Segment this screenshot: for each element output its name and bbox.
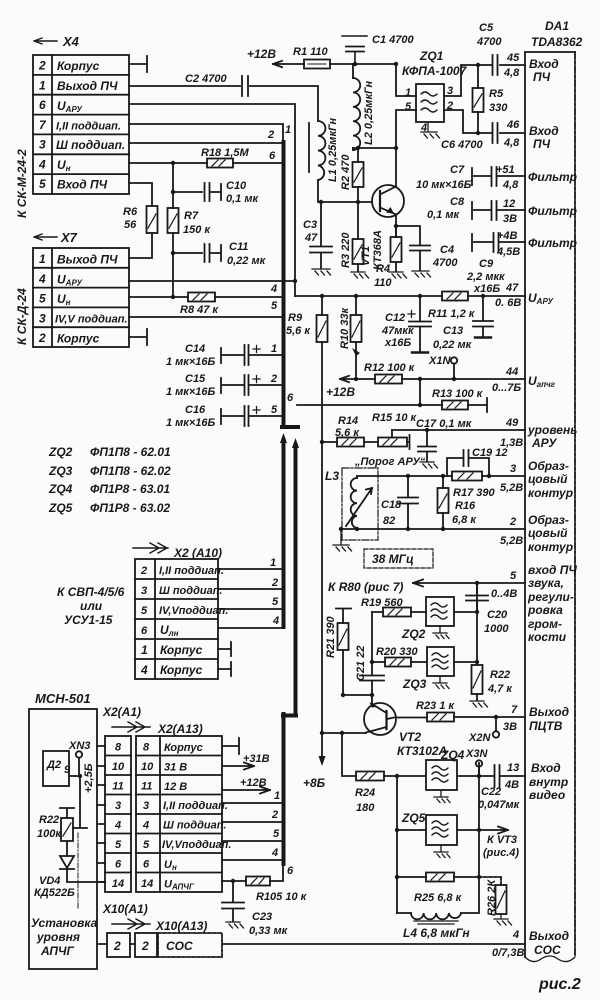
capacitor C6 4700 xyxy=(441,123,498,151)
svg-text:UАРУ: UАРУ xyxy=(528,291,553,306)
svg-text:С10: С10 xyxy=(226,180,247,192)
svg-text:ZQ4: ZQ4 xyxy=(48,482,73,496)
svg-text:IV,Vподдиап.: IV,Vподдиап. xyxy=(159,605,228,617)
svg-text:вход ПЧ: вход ПЧ xyxy=(528,563,577,577)
capacitor C18 82 xyxy=(381,476,418,529)
svg-text:3: 3 xyxy=(141,585,147,597)
supply +8V arrow xyxy=(303,733,326,790)
ground R4 xyxy=(389,272,407,278)
svg-text:1: 1 xyxy=(39,252,46,266)
svg-text:„Порог АРУ“: „Порог АРУ“ xyxy=(354,456,426,468)
svg-text:3: 3 xyxy=(39,138,46,152)
wire ZQ1 pin3 to C5 xyxy=(444,65,525,96)
wire 4 Uн with R8 xyxy=(129,283,283,297)
svg-text:2: 2 xyxy=(38,331,46,345)
svg-text:С15: С15 xyxy=(185,373,206,385)
svg-text:Uлн: Uлн xyxy=(160,623,179,638)
svg-text:5: 5 xyxy=(39,177,46,191)
ground X7 Корпус xyxy=(129,329,147,345)
connector X10 cells xyxy=(107,933,222,957)
svg-text:контур: контур xyxy=(528,540,573,554)
svg-text:Uн: Uн xyxy=(57,158,71,173)
capacitor C19 12 xyxy=(447,447,507,476)
svg-text:VT2: VT2 xyxy=(399,730,421,744)
svg-text:2: 2 xyxy=(140,565,147,577)
svg-text:Образ-: Образ- xyxy=(528,513,569,527)
svg-text:R14: R14 xyxy=(338,415,358,427)
svg-text:R25 6,8 к: R25 6,8 к xyxy=(414,892,463,904)
filter ZQ5 xyxy=(397,811,479,858)
filter list note ZQ2-ZQ5 xyxy=(48,445,171,515)
svg-text:Uапчг: Uапчг xyxy=(528,374,556,389)
resistor R1 110 xyxy=(293,46,330,69)
svg-text:5: 5 xyxy=(272,596,279,608)
svg-text:Вход ПЧ: Вход ПЧ xyxy=(57,178,108,192)
svg-text:Фильтр: Фильтр xyxy=(528,236,577,250)
svg-text:4,7 к: 4,7 к xyxy=(487,683,513,695)
svg-text:2: 2 xyxy=(509,516,516,528)
diode VD4 КД522Б xyxy=(34,856,105,899)
resistor R17 390 xyxy=(452,472,495,500)
svg-text:R4: R4 xyxy=(376,263,390,275)
svg-text:С11: С11 xyxy=(229,241,248,253)
svg-text:С6 4700: С6 4700 xyxy=(441,139,483,151)
svg-text:СОС: СОС xyxy=(166,939,193,953)
svg-text:R105 10 к: R105 10 к xyxy=(256,891,308,903)
svg-text:2: 2 xyxy=(141,939,149,953)
svg-text:+12В: +12В xyxy=(240,777,267,789)
svg-text:330: 330 xyxy=(489,102,508,114)
resistor R16 6,8к xyxy=(438,476,478,529)
svg-text:0/7,3В: 0/7,3В xyxy=(492,947,524,959)
ground X2(A10) pin4 xyxy=(218,662,231,676)
op-amp/IC DA1 TDA8362 box xyxy=(525,19,583,962)
test point X3N xyxy=(465,748,488,776)
wire X2(A13) row III xyxy=(222,809,281,822)
wire 2 III поддиап xyxy=(129,142,283,144)
svg-text:С9: С9 xyxy=(479,258,494,270)
svg-text:ХN3: ХN3 xyxy=(68,740,90,752)
capacitor C2 4700 xyxy=(185,73,248,96)
svg-text:С14: С14 xyxy=(185,343,205,355)
svg-text:6: 6 xyxy=(287,865,294,877)
svg-text:47мкк: 47мкк xyxy=(381,325,415,337)
IC pin 45 Вход ПЧ xyxy=(503,52,559,84)
svg-text:6: 6 xyxy=(39,98,46,112)
svg-text:4: 4 xyxy=(512,929,519,941)
svg-text:+12В: +12В xyxy=(326,385,355,399)
transistor VT2 КТ3102А xyxy=(364,702,447,758)
svg-text:14: 14 xyxy=(112,878,124,890)
wire X2(A13) row IV,V xyxy=(222,828,281,841)
IC pin 3 образцовый контур xyxy=(500,459,573,500)
svg-text:Ш поддиап.: Ш поддиап. xyxy=(56,138,125,152)
svg-text:I,II поддиап.: I,II поддиап. xyxy=(56,121,121,133)
svg-text:Вход: Вход xyxy=(529,124,559,138)
connector X7 table xyxy=(33,248,129,347)
svg-text:МСН-501: МСН-501 xyxy=(35,691,91,706)
svg-text:150 к: 150 к xyxy=(183,224,211,236)
wire +12V rail with arrow xyxy=(247,47,396,67)
resistor R8 47к xyxy=(180,293,219,317)
wire ZQ1 pin1 xyxy=(396,64,416,96)
filter ZQ4 xyxy=(426,748,525,803)
svg-text:кости: кости xyxy=(528,630,567,644)
svg-text:ровка: ровка xyxy=(527,603,563,617)
svg-text:5: 5 xyxy=(115,839,122,851)
capacitor C3 47 xyxy=(303,202,332,275)
svg-text:3В: 3В xyxy=(503,213,517,225)
svg-text:ZQ1: ZQ1 xyxy=(419,49,444,63)
svg-text:6: 6 xyxy=(269,150,276,162)
svg-text:уровень: уровень xyxy=(527,423,577,437)
svg-text:VD4: VD4 xyxy=(39,875,60,887)
svg-text:7: 7 xyxy=(39,118,47,132)
svg-text:31 В: 31 В xyxy=(164,762,187,774)
svg-text:6,8 к: 6,8 к xyxy=(452,514,477,526)
wire emitter rail +8V xyxy=(322,732,366,734)
svg-text:+4В: +4В xyxy=(497,230,518,242)
connector X2(A13) table xyxy=(136,736,231,892)
svg-text:5,6 к: 5,6 к xyxy=(286,325,311,337)
svg-text:180: 180 xyxy=(356,802,375,814)
svg-text:С22: С22 xyxy=(481,786,501,798)
IC pin 49 уровень АРУ xyxy=(500,417,577,450)
svg-text:38 МГц: 38 МГц xyxy=(372,552,414,566)
wire pin 5 звук with arrow K R80 xyxy=(328,580,525,595)
svg-text:К СВП-4/5/6: К СВП-4/5/6 xyxy=(57,585,125,599)
capacitor C4 4700 xyxy=(396,226,458,277)
svg-text:12: 12 xyxy=(503,198,515,210)
svg-text:L2 0,25мкГн: L2 0,25мкГн xyxy=(363,81,375,145)
resistor R3 220 xyxy=(340,202,364,271)
svg-text:+8Б: +8Б xyxy=(303,776,326,790)
svg-text:Выход ПЧ: Выход ПЧ xyxy=(57,79,118,93)
svg-text:0. 6В: 0. 6В xyxy=(495,297,521,309)
svg-text:Х2(А1): Х2(А1) xyxy=(102,705,141,719)
capacitor C7 10мк x16В xyxy=(416,164,525,191)
ground L3 xyxy=(333,529,352,551)
svg-text:IV,Vподдиап.: IV,Vподдиап. xyxy=(162,839,231,851)
filter ZQ3 xyxy=(402,647,477,691)
svg-text:R5: R5 xyxy=(489,88,504,100)
svg-text:ФП1П8 - 62.02: ФП1П8 - 62.02 xyxy=(90,464,171,478)
IC pin 2 образцовый контур xyxy=(500,513,573,554)
svg-text:0..4В: 0..4В xyxy=(491,588,517,600)
svg-text:ПЦТВ: ПЦТВ xyxy=(529,719,563,733)
wire X2(A10) row III xyxy=(218,577,281,589)
svg-text:рис.2: рис.2 xyxy=(538,976,581,993)
svg-text:49: 49 xyxy=(505,417,519,429)
svg-text:С1 4700: С1 4700 xyxy=(372,34,414,46)
svg-text:4,5В: 4,5В xyxy=(496,246,520,258)
svg-text:звука,: звука, xyxy=(528,576,564,590)
wire video rail xyxy=(478,763,480,877)
svg-text:Образ-: Образ- xyxy=(528,459,569,473)
svg-text:0,22 мк: 0,22 мк xyxy=(433,339,473,351)
svg-text:Ш поддиап.: Ш поддиап. xyxy=(159,585,222,597)
svg-text:ZQ5: ZQ5 xyxy=(48,501,73,515)
svg-text:1 мк×16Б: 1 мк×16Б xyxy=(166,386,216,398)
resistor R5 330 xyxy=(473,65,509,133)
svg-text:11: 11 xyxy=(141,781,152,793)
IC pin 5 вход ПЧ звука xyxy=(491,563,577,644)
svg-text:или: или xyxy=(80,599,103,613)
bus thick vertical (bottom) xyxy=(282,714,286,864)
svg-text:5,2В: 5,2В xyxy=(500,482,523,494)
connector X2(A10) table xyxy=(135,559,228,679)
svg-text:АПЧГ: АПЧГ xyxy=(40,944,74,958)
svg-text:контур: контур xyxy=(528,486,573,500)
wire 6 Uн with R18 xyxy=(129,150,283,163)
svg-text:4: 4 xyxy=(420,122,427,134)
wire X2(A10) row I,II xyxy=(218,557,281,569)
capacitor C9 2,2мкк x16В xyxy=(466,233,525,295)
capacitor C20 1000 xyxy=(466,583,509,635)
capacitor C22 0,047мк xyxy=(478,765,521,811)
capacitor C16 1мк x16Б xyxy=(166,404,283,429)
svg-text:R26 2К: R26 2К xyxy=(486,879,498,916)
capacitor C14 1мк x16Б xyxy=(166,343,283,368)
svg-text:СОС: СОС xyxy=(534,943,561,957)
svg-text:Корпус: Корпус xyxy=(57,332,100,346)
svg-text:5: 5 xyxy=(273,828,280,840)
capacitor C13 0,22мк xyxy=(433,296,493,351)
svg-text:Фильтр: Фильтр xyxy=(528,170,577,184)
inductor L4 6,8мкГн xyxy=(397,877,479,940)
wire to VT3 arrow xyxy=(479,827,519,860)
svg-text:Uн: Uн xyxy=(164,859,177,872)
svg-text:цовый: цовый xyxy=(528,526,568,540)
resistor R13 100к xyxy=(432,388,484,410)
resistor R14 5,6к xyxy=(322,415,378,447)
svg-text:2: 2 xyxy=(271,577,278,589)
resistor R23 1к xyxy=(416,700,525,722)
svg-text:ZQ3: ZQ3 xyxy=(402,677,427,691)
wire Vход ПЧ to R6 xyxy=(129,183,152,206)
svg-text:3: 3 xyxy=(143,800,149,812)
svg-text:+31В: +31В xyxy=(243,753,270,765)
wire L2/R2/VT1 collector node xyxy=(353,147,396,149)
svg-text:R3 220: R3 220 xyxy=(340,232,352,268)
label 38 МГц box xyxy=(364,549,433,568)
svg-text:К СК-Д-24: К СК-Д-24 xyxy=(15,288,29,345)
wire X7 UАРУ to vertical rail xyxy=(129,280,295,282)
svg-text:I,II поддиап.: I,II поддиап. xyxy=(163,800,228,812)
svg-text:видео: видео xyxy=(529,788,565,802)
svg-text:УСУ1-15: УСУ1-15 xyxy=(64,613,113,627)
svg-text:1: 1 xyxy=(274,790,280,802)
svg-text:Х10(А13): Х10(А13) xyxy=(155,919,207,933)
svg-text:Х7: Х7 xyxy=(60,230,78,245)
svg-text:С4: С4 xyxy=(440,244,454,256)
svg-text:4: 4 xyxy=(38,158,46,172)
bus arrow segment B xyxy=(282,440,286,627)
svg-text:3: 3 xyxy=(510,463,516,475)
IC pin 46 Вход ПЧ xyxy=(503,119,559,151)
module D2 box xyxy=(43,751,80,786)
resistor R11 1,2к xyxy=(428,292,476,321)
svg-text:КД522Б: КД522Б xyxy=(34,887,75,899)
resistor R26 2К xyxy=(479,877,512,925)
svg-text:R13 100 к: R13 100 к xyxy=(432,388,484,400)
svg-text:2: 2 xyxy=(38,59,46,73)
svg-text:2,2 мкк: 2,2 мкк xyxy=(466,271,506,283)
svg-text:Uн: Uн xyxy=(57,292,71,307)
svg-text:1000: 1000 xyxy=(484,623,509,635)
wire X2(A10) row IV,V xyxy=(218,596,281,609)
IC pin 12 Фильтр xyxy=(503,198,577,225)
wire R6 to X7 Выход ПЧ xyxy=(129,233,152,258)
wire L1 to VT1 base xyxy=(318,180,372,202)
svg-text:L1 0,25мкГн: L1 0,25мкГн xyxy=(327,118,339,182)
filter ZQ2 xyxy=(401,597,477,641)
trimmer R15 10к "Порог АРУ" xyxy=(354,412,426,468)
svg-text:С3: С3 xyxy=(303,219,317,231)
svg-text:8: 8 xyxy=(115,742,122,754)
svg-text:4,8: 4,8 xyxy=(503,137,520,149)
svg-text:ФП1П8 - 62.01: ФП1П8 - 62.01 xyxy=(90,445,171,459)
svg-text:14: 14 xyxy=(141,878,153,890)
svg-text:+2,5Б: +2,5Б xyxy=(83,763,95,793)
wire X2(A13) Корпус ground xyxy=(222,738,239,754)
svg-text:45: 45 xyxy=(506,52,520,64)
svg-text:2: 2 xyxy=(270,373,277,385)
svg-text:С17 0,1 мк: С17 0,1 мк xyxy=(416,418,473,430)
svg-text:L4 6,8 мкГн: L4 6,8 мкГн xyxy=(403,926,470,940)
svg-text:6: 6 xyxy=(115,859,122,871)
wire audio IF rail xyxy=(476,583,478,665)
capacitor C23 0,33мк xyxy=(222,881,289,937)
svg-text:1: 1 xyxy=(270,557,276,569)
svg-text:+51: +51 xyxy=(496,164,515,176)
svg-text:0...7Б: 0...7Б xyxy=(492,382,521,394)
svg-text:4700: 4700 xyxy=(476,36,502,48)
svg-text:КТ3102А: КТ3102А xyxy=(397,744,447,758)
svg-text:цовый: цовый xyxy=(528,472,568,486)
svg-text:5: 5 xyxy=(271,404,278,416)
connector X4 table xyxy=(33,55,129,194)
svg-text:R16: R16 xyxy=(455,500,476,512)
svg-text:Вход: Вход xyxy=(529,57,559,71)
svg-text:Вход: Вход xyxy=(531,761,561,775)
wire ZQ5 feed rail xyxy=(396,776,398,913)
svg-text:4: 4 xyxy=(140,663,148,677)
svg-text:6: 6 xyxy=(141,625,148,637)
svg-text:R9: R9 xyxy=(288,312,303,324)
svg-text:UАРУ: UАРУ xyxy=(57,99,82,114)
resistor R12 100к xyxy=(364,362,416,384)
svg-text:R20 330: R20 330 xyxy=(376,646,418,658)
resistor R6 56 xyxy=(123,206,158,233)
resistor R7 150к xyxy=(168,208,212,236)
wire R19-R20 branch xyxy=(371,612,373,662)
svg-text:Х1N: Х1N xyxy=(428,355,451,367)
svg-text:С21 22: С21 22 xyxy=(355,646,367,681)
test point X1N xyxy=(428,355,457,379)
svg-text:R21 390: R21 390 xyxy=(325,616,337,658)
svg-text:АРУ: АРУ xyxy=(531,436,557,450)
test point XN3 xyxy=(64,740,95,793)
wire UАРУ line to pin 47 xyxy=(295,295,525,297)
svg-text:R8 47 к: R8 47 к xyxy=(180,304,219,316)
svg-text:0,1 мк: 0,1 мк xyxy=(427,209,460,221)
svg-text:Ш поддиап.: Ш поддиап. xyxy=(163,820,226,832)
svg-text:4700: 4700 xyxy=(432,257,458,269)
svg-text:Корпус: Корпус xyxy=(57,59,100,73)
bus arrow segment C xyxy=(283,445,296,716)
svg-text:R6: R6 xyxy=(123,206,138,218)
svg-text:Выход ПЧ: Выход ПЧ xyxy=(57,253,118,267)
connector X7 arrow xyxy=(34,230,78,245)
resistor R20 330 xyxy=(372,646,427,667)
resistor R21 390 xyxy=(325,609,351,696)
svg-text:DA1: DA1 xyxy=(545,19,569,33)
wire R24 feed xyxy=(342,733,356,776)
svg-text:VT1: VT1 xyxy=(360,246,372,266)
svg-text:6: 6 xyxy=(143,859,150,871)
capacitor C12 47мкк x16Б xyxy=(381,296,431,353)
inductor L1 0,25мкГн xyxy=(309,118,339,182)
module MSN-501 box xyxy=(29,691,97,969)
svg-text:С20: С20 xyxy=(487,609,508,621)
svg-text:КФПА-1007: КФПА-1007 xyxy=(402,64,468,78)
wire +31В arrow xyxy=(222,753,270,770)
svg-text:Х3N: Х3N xyxy=(465,748,488,760)
svg-text:R1 110: R1 110 xyxy=(293,46,329,58)
svg-text:С18: С18 xyxy=(381,499,402,511)
svg-text:3В: 3В xyxy=(503,721,517,733)
svg-text:5: 5 xyxy=(39,292,46,306)
wire ZQ1 pin2 to C6 xyxy=(444,110,525,133)
wire R9 rail vertical xyxy=(321,342,323,733)
svg-text:Х2 (А10): Х2 (А10) xyxy=(173,546,222,560)
svg-text:R23 1 к: R23 1 к xyxy=(416,700,455,712)
connector X2(A1) arrow xyxy=(102,705,203,736)
svg-text:UАПЧГ: UАПЧГ xyxy=(164,879,195,892)
svg-text:х16Б: х16Б xyxy=(384,337,411,349)
svg-text:Фильтр: Фильтр xyxy=(528,204,577,218)
capacitor C8 0,1мк xyxy=(427,196,525,221)
ground X2(A10) pin1 xyxy=(218,642,231,656)
svg-text:С12: С12 xyxy=(385,312,405,324)
svg-text:1: 1 xyxy=(405,87,411,99)
svg-text:4,8: 4,8 xyxy=(503,67,520,79)
svg-text:0,22 мк: 0,22 мк xyxy=(227,255,267,267)
resistor R25 6,8к xyxy=(397,873,479,905)
IC pin 13 Вход внутр видео xyxy=(504,761,568,802)
svg-text:К VT3: К VT3 xyxy=(487,834,517,846)
svg-text:1 мк×16Б: 1 мк×16Б xyxy=(166,417,216,429)
svg-text:0,33 мк: 0,33 мк xyxy=(249,925,289,937)
IC pin 4 Выход СОС xyxy=(492,929,569,959)
svg-text:гром-: гром- xyxy=(528,617,562,631)
svg-text:R12 100 к: R12 100 к xyxy=(364,362,416,374)
connector X2(A1) table xyxy=(105,736,131,892)
wire X2(A13) row Uн xyxy=(222,847,281,860)
svg-text:46: 46 xyxy=(506,119,520,131)
wire 5 IV,V поддиап xyxy=(129,300,283,317)
svg-text:регули-: регули- xyxy=(527,590,574,604)
resistor R22 100к xyxy=(37,808,74,856)
node K SVP-4/5/6 note xyxy=(57,585,125,627)
svg-text:С19 12: С19 12 xyxy=(472,447,507,459)
svg-text:К СК-М-24-2: К СК-М-24-2 xyxy=(15,149,29,218)
svg-text:уровня: уровня xyxy=(36,930,80,944)
svg-text:44: 44 xyxy=(505,366,518,378)
wire X4 Выход ПЧ xyxy=(129,86,318,121)
svg-text:С23: С23 xyxy=(252,911,272,923)
